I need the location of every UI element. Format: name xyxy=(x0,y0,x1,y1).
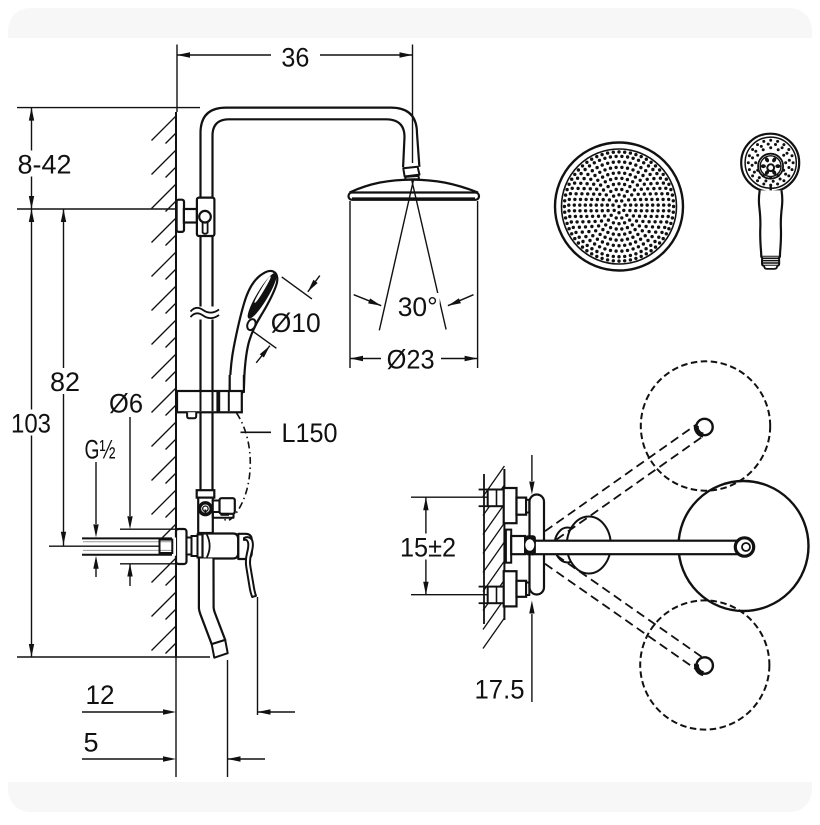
hand shower grip xyxy=(230,375,244,392)
diverter knob xyxy=(200,503,212,515)
wall section hatching (front view) xyxy=(152,116,177,654)
svg-text:Ø10: Ø10 xyxy=(271,308,321,338)
tub spout tube xyxy=(199,559,225,645)
dimension 103 line xyxy=(31,209,33,657)
riser pipe lower segment xyxy=(199,320,201,392)
hand shower face dot ring xyxy=(747,139,795,187)
svg-text:8-42: 8-42 xyxy=(18,149,72,179)
svg-text:Ø23: Ø23 xyxy=(387,344,435,374)
dimension O10 lower line xyxy=(253,331,277,348)
dimension 36 extension line left (wall) xyxy=(176,45,178,113)
diverter body xyxy=(198,498,213,533)
O6 text xyxy=(107,390,145,416)
svg-text:12: 12 xyxy=(86,680,115,710)
dimension 103 arrows xyxy=(29,209,34,222)
dimension 82 text xyxy=(48,368,82,394)
hand shower face inner sliver xyxy=(254,276,271,303)
arm end cap ring xyxy=(735,538,753,556)
hose elbow lower outline xyxy=(213,512,234,518)
O6 lower ref line xyxy=(120,563,176,565)
rain head face nozzle dots xyxy=(563,150,676,263)
mixer escutcheon xyxy=(176,529,187,564)
dimension O23 line xyxy=(350,358,381,360)
mixer body arc xyxy=(207,535,210,558)
hand shower hose dash-dot curve xyxy=(225,413,251,521)
valve cap profile ellipse xyxy=(555,528,581,563)
dimension 36 arrows xyxy=(177,52,190,57)
svg-text:82: 82 xyxy=(50,367,80,397)
hose elbow bottom band xyxy=(221,513,230,516)
hand shower pivot circle xyxy=(246,318,258,331)
rain head circle (side) xyxy=(679,481,809,611)
svg-text:15±2: 15±2 xyxy=(400,532,456,562)
hose elbow connector xyxy=(213,501,220,513)
hose elbow nut xyxy=(220,498,235,514)
supply pipe centerline xyxy=(49,545,160,547)
top bolt nut xyxy=(526,500,529,513)
hand shower outlet cap xyxy=(764,266,777,269)
O6 lower arrow shaft xyxy=(129,564,131,587)
G1/2 upper arrow xyxy=(95,462,97,524)
rain shower head dome xyxy=(350,180,479,193)
side view wall hatching xyxy=(483,466,504,649)
hand shower face outer circle xyxy=(741,134,799,192)
top wall plate xyxy=(504,488,517,523)
mixer step small xyxy=(187,538,192,555)
dimension 36 extension line right (head axis) xyxy=(412,45,414,164)
L150 leader line xyxy=(241,431,272,433)
reference line at bracket level xyxy=(17,208,175,210)
mixer body xyxy=(203,534,239,559)
ball joint (side) xyxy=(525,535,536,555)
dimension 82 line xyxy=(63,209,65,546)
valve body (side) xyxy=(511,536,525,554)
dimension O10 text xyxy=(270,309,322,335)
slider bracket grip divider xyxy=(228,392,230,411)
dimension O10 upper arrow xyxy=(308,276,320,292)
rain head face outer circle xyxy=(555,143,683,271)
supply pipe fill xyxy=(82,538,176,556)
supply pipe inner lines xyxy=(83,541,172,543)
G1/2 text xyxy=(82,436,118,462)
svg-text:L150: L150 xyxy=(282,418,338,448)
hand shower face bottom tick xyxy=(770,185,772,196)
mixer union nut xyxy=(198,535,203,558)
hand shower face middle ring xyxy=(758,154,783,179)
rotated arm (up) dashed lines xyxy=(545,422,701,532)
15+-2 arrows xyxy=(423,497,428,510)
svg-text:5: 5 xyxy=(83,727,98,757)
dimension 103 text xyxy=(8,410,54,436)
hand shower face center hole xyxy=(767,164,774,171)
mixer lever pivot pill xyxy=(238,534,252,559)
rain head face inner circle xyxy=(562,149,677,264)
shower arm tube (side) xyxy=(533,541,738,555)
tub spout end cap xyxy=(212,640,228,658)
reference line at floor level xyxy=(17,656,210,658)
extension line spout tip xyxy=(227,660,229,777)
valve escutcheon (side) xyxy=(506,530,511,563)
O6 upper arrow xyxy=(129,417,131,516)
dimension O10 upper line xyxy=(282,277,312,299)
rotated head position circle (down) xyxy=(640,600,769,729)
dimension 8-42 arrows xyxy=(29,108,34,121)
wall bracket knob slot xyxy=(203,222,208,234)
dimension 82 arrows xyxy=(61,209,66,222)
spray cone right line xyxy=(412,179,447,330)
svg-text:G½: G½ xyxy=(85,434,116,464)
mixer lever handle xyxy=(244,537,256,597)
pipe break squiggle xyxy=(191,308,220,318)
dimension 5 line left xyxy=(82,758,163,760)
supply pipe xyxy=(82,538,172,554)
17.5 upper arrow xyxy=(531,455,533,481)
collar on riser xyxy=(197,490,215,497)
dimension 5 line right xyxy=(228,758,266,760)
15+-2 text xyxy=(398,534,458,560)
rotated arm cap (up) xyxy=(696,419,712,435)
riser pipe above collar xyxy=(199,412,201,490)
slider bracket left nub xyxy=(187,412,196,418)
supply pipe wall box xyxy=(160,540,173,553)
dimension 8-42 text xyxy=(16,151,74,177)
riser pipe with top bend outline xyxy=(201,108,420,198)
svg-text:30°: 30° xyxy=(398,292,438,322)
svg-text:103: 103 xyxy=(11,408,51,438)
rotated arm (down) dashed lines xyxy=(545,564,701,673)
side view wall back line xyxy=(483,474,485,624)
wall bracket plate xyxy=(177,200,184,232)
bottom bolt xyxy=(517,581,527,597)
extension line lever tip xyxy=(257,597,259,715)
bottom wall plate xyxy=(504,571,517,606)
svg-text:36: 36 xyxy=(281,43,309,73)
hand shower spray face (edge view) xyxy=(245,271,280,321)
hand shower face handle xyxy=(759,190,782,256)
slider bracket pipe lines xyxy=(200,392,202,411)
dimension 12 line right xyxy=(258,711,296,713)
spray angle right arrow xyxy=(448,295,474,306)
spray angle left arrow xyxy=(354,295,382,306)
bottom in-wall pipe box xyxy=(488,587,505,604)
O6 upper ref line xyxy=(120,528,176,530)
svg-text:17.5: 17.5 xyxy=(475,674,525,704)
bottom supply stub lines xyxy=(479,586,488,588)
hand shower outlet nub xyxy=(762,257,779,266)
rotated head position circle (up) xyxy=(641,361,770,490)
15+-2 lower reference line xyxy=(411,594,488,596)
G1/2 lower arrow xyxy=(93,556,98,569)
rotated arm cap (down) xyxy=(697,657,713,673)
slider bracket clamp band xyxy=(216,392,220,412)
spray cone left line xyxy=(379,179,413,330)
spray angle 30 deg text xyxy=(396,293,440,319)
riser pipe upper segment xyxy=(199,236,201,307)
wall face extension line down to dims xyxy=(175,657,177,777)
svg-text:Ø6: Ø6 xyxy=(109,388,143,418)
side view wall face line xyxy=(503,469,505,620)
top bolt xyxy=(517,498,527,515)
top supply stub lines xyxy=(479,489,488,491)
15+-2 upper reference line xyxy=(411,496,488,498)
hand shower grip dark band xyxy=(230,391,243,394)
wall bracket knob xyxy=(199,211,211,223)
wall bracket arm xyxy=(184,209,197,223)
hand shower face nozzles xyxy=(761,157,781,176)
dimension O23 arrows xyxy=(350,356,363,361)
mixer step large xyxy=(192,536,198,556)
reference line at shower-arm level xyxy=(17,107,200,109)
dimension 12 line left xyxy=(82,711,163,713)
dimension O23 extension lines xyxy=(349,201,351,368)
rain shower head rim xyxy=(349,193,480,200)
bottom bolt nut xyxy=(526,583,529,596)
wall face line (front view) xyxy=(175,112,177,657)
slider bracket body xyxy=(177,391,242,412)
hand shower body outline xyxy=(230,271,278,389)
15+-2 dimension line xyxy=(425,497,427,595)
wall bracket sleeve on pipe xyxy=(197,198,215,236)
top in-wall pipe box xyxy=(488,490,505,507)
column capsule escutcheon xyxy=(530,495,545,595)
holder profile ellipse xyxy=(567,517,611,574)
dimension 8-42 line xyxy=(31,108,33,209)
dimension O10 lower arrow xyxy=(256,346,270,363)
hand shower face inner circle xyxy=(745,137,796,188)
dimension 36 line xyxy=(177,54,271,56)
ball joint nut xyxy=(403,167,419,180)
17.5 lower arrow xyxy=(531,614,533,702)
